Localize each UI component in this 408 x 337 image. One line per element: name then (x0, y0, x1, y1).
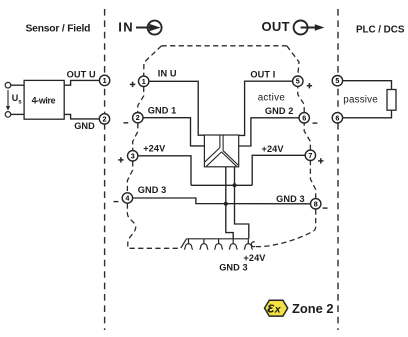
wire +24V rail (191, 184, 252, 186)
module outline: below terminal 4 (127, 204, 180, 249)
Ex logo hexagon (265, 300, 288, 317)
wire IN U (149, 81, 204, 135)
module outline: terminal 3-4 (127, 161, 132, 192)
svg-text:5: 5 (335, 76, 339, 85)
svg-text:2: 2 (136, 113, 140, 122)
svg-text:7: 7 (308, 151, 312, 160)
voltage source terminal bottom (5, 112, 11, 118)
module outline: terminal 2-3 (133, 123, 138, 150)
wire Us bottom to box (11, 113, 24, 115)
svg-text:6: 6 (335, 113, 339, 122)
module outline: bottom-right curve (256, 210, 316, 247)
svg-text:GND 3: GND 3 (276, 194, 305, 204)
svg-text:GND 3: GND 3 (138, 185, 167, 195)
wire +24V right (252, 155, 305, 185)
polarity + terminal 3 (118, 157, 123, 162)
module outline: top-left corner (144, 46, 162, 76)
wire passive loop bottom (343, 110, 392, 118)
svg-text:PLC / DCS: PLC / DCS (356, 24, 405, 35)
svg-text:passive: passive (343, 95, 378, 106)
voltage source terminal top (5, 82, 11, 88)
polarity - terminal 4 (114, 201, 119, 203)
bus contact 4 (GND 3) (229, 239, 238, 250)
svg-text:OUT I: OUT I (250, 70, 275, 80)
terminal 5 outer (332, 76, 342, 86)
svg-text:3: 3 (131, 151, 135, 160)
polarity - terminal 6 (313, 122, 318, 124)
wire passive loop top (343, 81, 392, 90)
terminal 2 outer (99, 114, 109, 124)
bus contact 1 (184, 239, 193, 250)
terminal 8 inner (GND 3) (311, 199, 321, 209)
isolation symbol (double-line Y) (204, 135, 238, 166)
svg-text:1: 1 (103, 76, 107, 85)
svg-text:GND 3: GND 3 (219, 263, 248, 273)
wire Us top to box (11, 84, 24, 86)
svg-text:GND 1: GND 1 (148, 105, 177, 115)
wire OUT I (239, 81, 293, 135)
svg-text:OUT: OUT (262, 19, 290, 34)
svg-text:Sensor / Field: Sensor / Field (26, 23, 91, 34)
junction dot +24V (233, 183, 237, 187)
svg-text:+24V: +24V (143, 143, 166, 153)
terminal 5 inner (OUT I) (293, 76, 303, 86)
output symbol (arrow out of circle) (294, 21, 325, 35)
terminal 1 inner (IN U) (139, 76, 149, 86)
Us arrow (6, 90, 10, 111)
isolator box U1 (204, 135, 238, 167)
svg-text:x: x (274, 304, 282, 316)
sensor box 4-wire (24, 80, 64, 119)
svg-text:GND 2: GND 2 (265, 106, 294, 116)
terminal 4 inner (GND 3) (122, 193, 132, 203)
svg-text:8: 8 (314, 199, 318, 208)
wire bus +24V (vertical B) (235, 167, 249, 239)
input symbol (arrow into circle) (136, 21, 162, 35)
svg-text:IN: IN (118, 19, 134, 34)
bus connector bar (186, 238, 248, 240)
module outline: terminal 7-6 (304, 123, 310, 150)
terminal 6 inner (GND 2) (299, 113, 309, 123)
wire GND 1 (143, 118, 204, 146)
polarity + terminal 5 (307, 83, 312, 88)
module outline: terminal 8-7 (310, 161, 315, 199)
svg-text:1: 1 (142, 77, 146, 86)
module outline: terminal 1-2 (138, 87, 144, 112)
zone divider left (dashed) (104, 9, 106, 330)
svg-text:active: active (258, 92, 286, 103)
svg-text:GND: GND (74, 121, 95, 131)
module outline: terminal 6-5 (298, 87, 304, 113)
resistor load R1 (387, 90, 396, 111)
svg-text:+24V: +24V (243, 253, 266, 263)
svg-text:4: 4 (125, 194, 129, 203)
terminal 7 inner (+24V) (305, 150, 315, 160)
svg-text:2: 2 (103, 114, 107, 123)
wire GND 3 rail (133, 198, 311, 204)
polarity - terminal 8 (323, 207, 328, 209)
zone divider right (dashed) (337, 9, 339, 330)
svg-text:OUT U: OUT U (67, 70, 96, 80)
terminal 1 outer (99, 75, 109, 85)
svg-text:+24V: +24V (262, 144, 285, 154)
terminal 3 inner (+24V) (128, 151, 138, 161)
polarity - terminal 2 (124, 122, 129, 124)
terminal 2 inner (GND 1) (133, 113, 143, 123)
wire box to terminal 1 (OUT U) (64, 80, 99, 85)
polarity + terminal 7 (318, 158, 323, 163)
junction dot GND 3 (224, 202, 228, 206)
svg-text:IN U: IN U (158, 69, 177, 79)
module outline: rise to bus bar (181, 239, 187, 248)
bus contact 5 (+24V) (244, 239, 255, 250)
wire box to terminal 2 (GND) (64, 114, 99, 119)
svg-text:5: 5 (296, 77, 300, 86)
bus contact 3 (214, 239, 223, 250)
module outline: top-right corner (287, 46, 299, 76)
wire +24V left (138, 156, 191, 186)
svg-text:4-wire: 4-wire (32, 96, 56, 106)
terminal 6 outer (332, 113, 342, 123)
wire bus GND 3 (vertical A) (226, 167, 233, 239)
module outline: top edge (162, 45, 287, 47)
svg-text:Zone 2: Zone 2 (292, 301, 334, 316)
wire GND 2 (239, 118, 299, 146)
polarity + terminal 1 (130, 82, 135, 87)
bus contact 2 (200, 239, 209, 250)
svg-text:6: 6 (302, 113, 306, 122)
